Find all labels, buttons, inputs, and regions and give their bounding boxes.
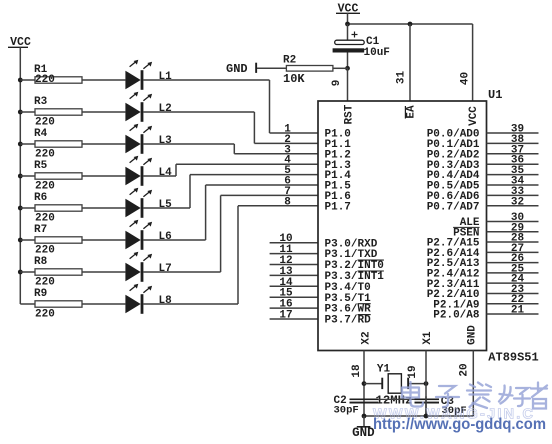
pin label P3.7/RD bbox=[325, 315, 372, 327]
pin label P2.3/A11 bbox=[427, 279, 480, 291]
svg-text:32: 32 bbox=[511, 196, 524, 208]
svg-text:P0.7/AD7: P0.7/AD7 bbox=[427, 201, 480, 213]
right pin stubs 39-32 bbox=[487, 133, 539, 206]
watermark Chinese char zi bbox=[436, 386, 459, 407]
wire X2 to crystal Y1 bbox=[364, 383, 382, 385]
watermark Chinese char ai bbox=[467, 383, 491, 409]
wire R5 to LED L4 bbox=[82, 175, 125, 177]
svg-text:220: 220 bbox=[35, 181, 55, 193]
pin label P3.0/RXD bbox=[325, 238, 378, 250]
svg-text:30pF: 30pF bbox=[334, 404, 359, 416]
crystal Y1 12MHz bbox=[376, 363, 413, 407]
svg-text:220: 220 bbox=[35, 74, 55, 86]
watermark Chinese char zhe bbox=[531, 383, 547, 409]
resistor R1 220 bbox=[34, 64, 82, 86]
wire R9 to LED L8 bbox=[82, 303, 125, 305]
wire L2 cathode to P1.1 pin 2 bbox=[143, 111, 254, 113]
junction dot rail/X2 bbox=[362, 414, 367, 419]
wire rail to R6 bbox=[20, 207, 35, 209]
pin label EA (active low) bbox=[405, 105, 417, 119]
svg-text:18: 18 bbox=[351, 364, 363, 378]
pin label P2.0/A8 bbox=[433, 310, 480, 322]
svg-text:8: 8 bbox=[284, 196, 291, 208]
svg-text:P1.7: P1.7 bbox=[325, 201, 351, 213]
wire R4 to LED L3 bbox=[82, 143, 125, 145]
junction dot rail/X1 bbox=[424, 414, 429, 419]
wire L7 cathode to P1.6 pin 7 bbox=[143, 271, 220, 273]
wire rail to R4 bbox=[20, 143, 35, 145]
resistor R5 220 bbox=[34, 160, 82, 193]
wire rail to R8 bbox=[20, 271, 35, 273]
svg-text:220: 220 bbox=[35, 117, 55, 129]
wire VCC vertical rail (left) bbox=[19, 80, 21, 304]
svg-text:21: 21 bbox=[511, 305, 525, 317]
LED L8 bbox=[125, 284, 172, 314]
resistor R9 220 bbox=[34, 288, 82, 321]
junction dot rail/R6 bbox=[18, 206, 23, 211]
pin label P3.2/INT0 bbox=[325, 260, 384, 272]
svg-text:P2.0/A8: P2.0/A8 bbox=[433, 310, 480, 322]
pin label P2.2/A10 bbox=[427, 289, 480, 301]
ground GND (bottom) symbol bbox=[352, 416, 375, 440]
resistor R6 220 bbox=[34, 192, 82, 225]
resistor R3 220 bbox=[34, 96, 82, 129]
capacitor C2 30pF bbox=[334, 395, 379, 417]
svg-text:AT89S51: AT89S51 bbox=[488, 351, 538, 365]
ground GND (top) symbol bbox=[226, 62, 257, 76]
wire R8 to LED L7 bbox=[82, 271, 125, 273]
wire rail to R9 bbox=[20, 303, 35, 305]
svg-text:GND: GND bbox=[226, 62, 248, 76]
svg-text:L2: L2 bbox=[159, 103, 172, 115]
junction dot rail/R4 bbox=[18, 142, 23, 147]
wire L4 cathode to P1.3 pin 4 bbox=[143, 175, 176, 177]
pin label P3.1/TXD bbox=[325, 249, 378, 261]
junction dot rail/R3 bbox=[18, 110, 23, 115]
pin label P3.3/INT1 bbox=[325, 271, 385, 283]
chip U1 AT89S51 outline bbox=[318, 101, 487, 351]
junction dot RST/R2 bbox=[345, 66, 350, 71]
svg-text:9: 9 bbox=[331, 80, 343, 87]
wire C2 top to C3 top (node line) bbox=[378, 398, 415, 400]
pin label P2.7/A15 bbox=[427, 238, 480, 250]
svg-text:R5: R5 bbox=[34, 160, 48, 172]
junction dot rail/R1 bbox=[18, 78, 23, 83]
svg-text:R7: R7 bbox=[34, 224, 47, 236]
wire C1 to RST node bbox=[347, 53, 349, 69]
wire VCC top rail to pin 40 bbox=[348, 24, 473, 101]
junction dot rail/R8 bbox=[18, 270, 23, 275]
pin label ALE bbox=[460, 217, 480, 229]
svg-text:220: 220 bbox=[35, 309, 55, 321]
svg-text:GND: GND bbox=[352, 426, 375, 439]
wire EA pin 31 to VCC rail bbox=[409, 24, 411, 101]
wire R7 to LED L6 bbox=[82, 239, 125, 241]
svg-text:EA: EA bbox=[406, 105, 418, 119]
svg-text:X1: X1 bbox=[422, 331, 434, 345]
LED L2 bbox=[125, 92, 171, 122]
svg-text:L7: L7 bbox=[159, 263, 172, 275]
pin label P2.4/A12 bbox=[427, 269, 480, 281]
pin label P3.6/WR bbox=[325, 304, 372, 316]
watermark Chinese char hao bbox=[499, 386, 530, 407]
svg-text:Y1: Y1 bbox=[377, 363, 391, 375]
resistor R2 10K bbox=[257, 55, 348, 86]
wire L1 cathode to P1.0 pin 1 bbox=[143, 79, 269, 81]
svg-text:L4: L4 bbox=[159, 167, 173, 179]
svg-text:10K: 10K bbox=[283, 72, 305, 86]
pin label PSEN bbox=[453, 227, 479, 239]
svg-text:L3: L3 bbox=[159, 135, 173, 147]
svg-text:U1: U1 bbox=[488, 88, 502, 102]
wire Y1 to X1 pin 19 bbox=[409, 383, 426, 385]
svg-text:40: 40 bbox=[460, 72, 472, 85]
wire rail to R3 bbox=[20, 111, 35, 113]
svg-text:10uF: 10uF bbox=[364, 47, 390, 59]
junction dot rail/R5 bbox=[18, 174, 23, 179]
LED L6 bbox=[125, 220, 171, 250]
power VCC (top) symbol bbox=[336, 3, 360, 25]
junction dot rail/R7 bbox=[18, 238, 23, 243]
pin label P2.1/A9 bbox=[433, 299, 479, 311]
svg-text:X2: X2 bbox=[360, 331, 372, 344]
wire X1 down to ground rail bbox=[425, 396, 427, 416]
LED L1 bbox=[125, 60, 172, 90]
resistor R7 220 bbox=[34, 224, 82, 257]
svg-text:19: 19 bbox=[407, 365, 419, 378]
svg-text:R8: R8 bbox=[34, 256, 48, 268]
wire L6 cathode to P1.5 pin 6 bbox=[143, 239, 205, 241]
wire X2 pin 18 down bbox=[363, 351, 365, 417]
wire GND pin 20 down bbox=[472, 351, 474, 417]
svg-text:L5: L5 bbox=[159, 199, 173, 211]
svg-text:12MHz: 12MHz bbox=[376, 394, 413, 408]
pin stubs 10-17 (P3 port) bbox=[270, 243, 318, 319]
watermark Chinese char dian bbox=[402, 382, 423, 407]
wire rail to R1 bbox=[20, 79, 35, 81]
LED L3 bbox=[125, 124, 172, 154]
svg-text:R2: R2 bbox=[283, 55, 296, 67]
junction dot VCC/C1 bbox=[345, 22, 350, 27]
wire R1 to LED L1 bbox=[82, 79, 125, 81]
svg-text:R6: R6 bbox=[34, 192, 47, 204]
wire rail to R5 bbox=[20, 175, 35, 177]
svg-text:R4: R4 bbox=[34, 128, 48, 140]
junction dot X2/Y1 bbox=[362, 381, 367, 386]
svg-text:RST: RST bbox=[343, 104, 355, 124]
pin label P3.4/T0 bbox=[325, 282, 371, 294]
svg-text:R9: R9 bbox=[34, 288, 47, 300]
wire L3 cathode to P1.2 pin 3 bbox=[143, 143, 234, 145]
svg-text:http://www.go-gddq.com: http://www.go-gddq.com bbox=[373, 416, 546, 433]
junction dot X1/Y1 bbox=[424, 381, 429, 386]
svg-text:L1: L1 bbox=[159, 71, 173, 83]
wire RST node to pin 9 bbox=[347, 68, 349, 101]
svg-text:R3: R3 bbox=[34, 96, 48, 108]
pin label P2.5/A13 bbox=[427, 258, 480, 270]
wire L8 cathode to P1.7 pin 8 bbox=[143, 303, 238, 305]
wire R6 to LED L5 bbox=[82, 207, 125, 209]
LED L7 bbox=[125, 252, 171, 282]
power rail VCC (left) symbol bbox=[8, 36, 31, 80]
svg-text:220: 220 bbox=[35, 245, 55, 257]
svg-text:17: 17 bbox=[279, 310, 292, 322]
resistor R8 220 bbox=[34, 256, 82, 289]
pin label P3.5/T1 bbox=[325, 293, 372, 305]
svg-text:31: 31 bbox=[396, 71, 408, 85]
svg-text:P3.7/RD: P3.7/RD bbox=[325, 315, 372, 327]
capacitor C3 30pF bbox=[415, 396, 467, 417]
wire R3 to LED L2 bbox=[82, 111, 125, 113]
LED L5 bbox=[125, 188, 172, 218]
svg-text:GND: GND bbox=[466, 325, 478, 345]
svg-text:L8: L8 bbox=[159, 295, 173, 307]
right pin stubs 30-21 bbox=[487, 222, 539, 315]
wire rail to R7 bbox=[20, 239, 35, 241]
wire ground rail bbox=[364, 415, 473, 417]
svg-text:220: 220 bbox=[35, 149, 55, 161]
svg-text:220: 220 bbox=[35, 213, 55, 225]
svg-text:L6: L6 bbox=[159, 231, 172, 243]
capacitor C1 10uF bbox=[333, 24, 390, 59]
resistor R4 220 bbox=[34, 128, 82, 161]
wire L5 cathode to P1.4 pin 5 bbox=[143, 207, 190, 209]
junction dot VCC/EA bbox=[408, 22, 413, 27]
pin label P2.6/A14 bbox=[427, 248, 480, 260]
svg-text:VCC: VCC bbox=[468, 106, 480, 126]
wire X1 pin 19 down bbox=[425, 351, 427, 417]
svg-text:20: 20 bbox=[459, 363, 471, 376]
LED L4 bbox=[125, 156, 172, 186]
svg-text:220: 220 bbox=[35, 277, 55, 289]
